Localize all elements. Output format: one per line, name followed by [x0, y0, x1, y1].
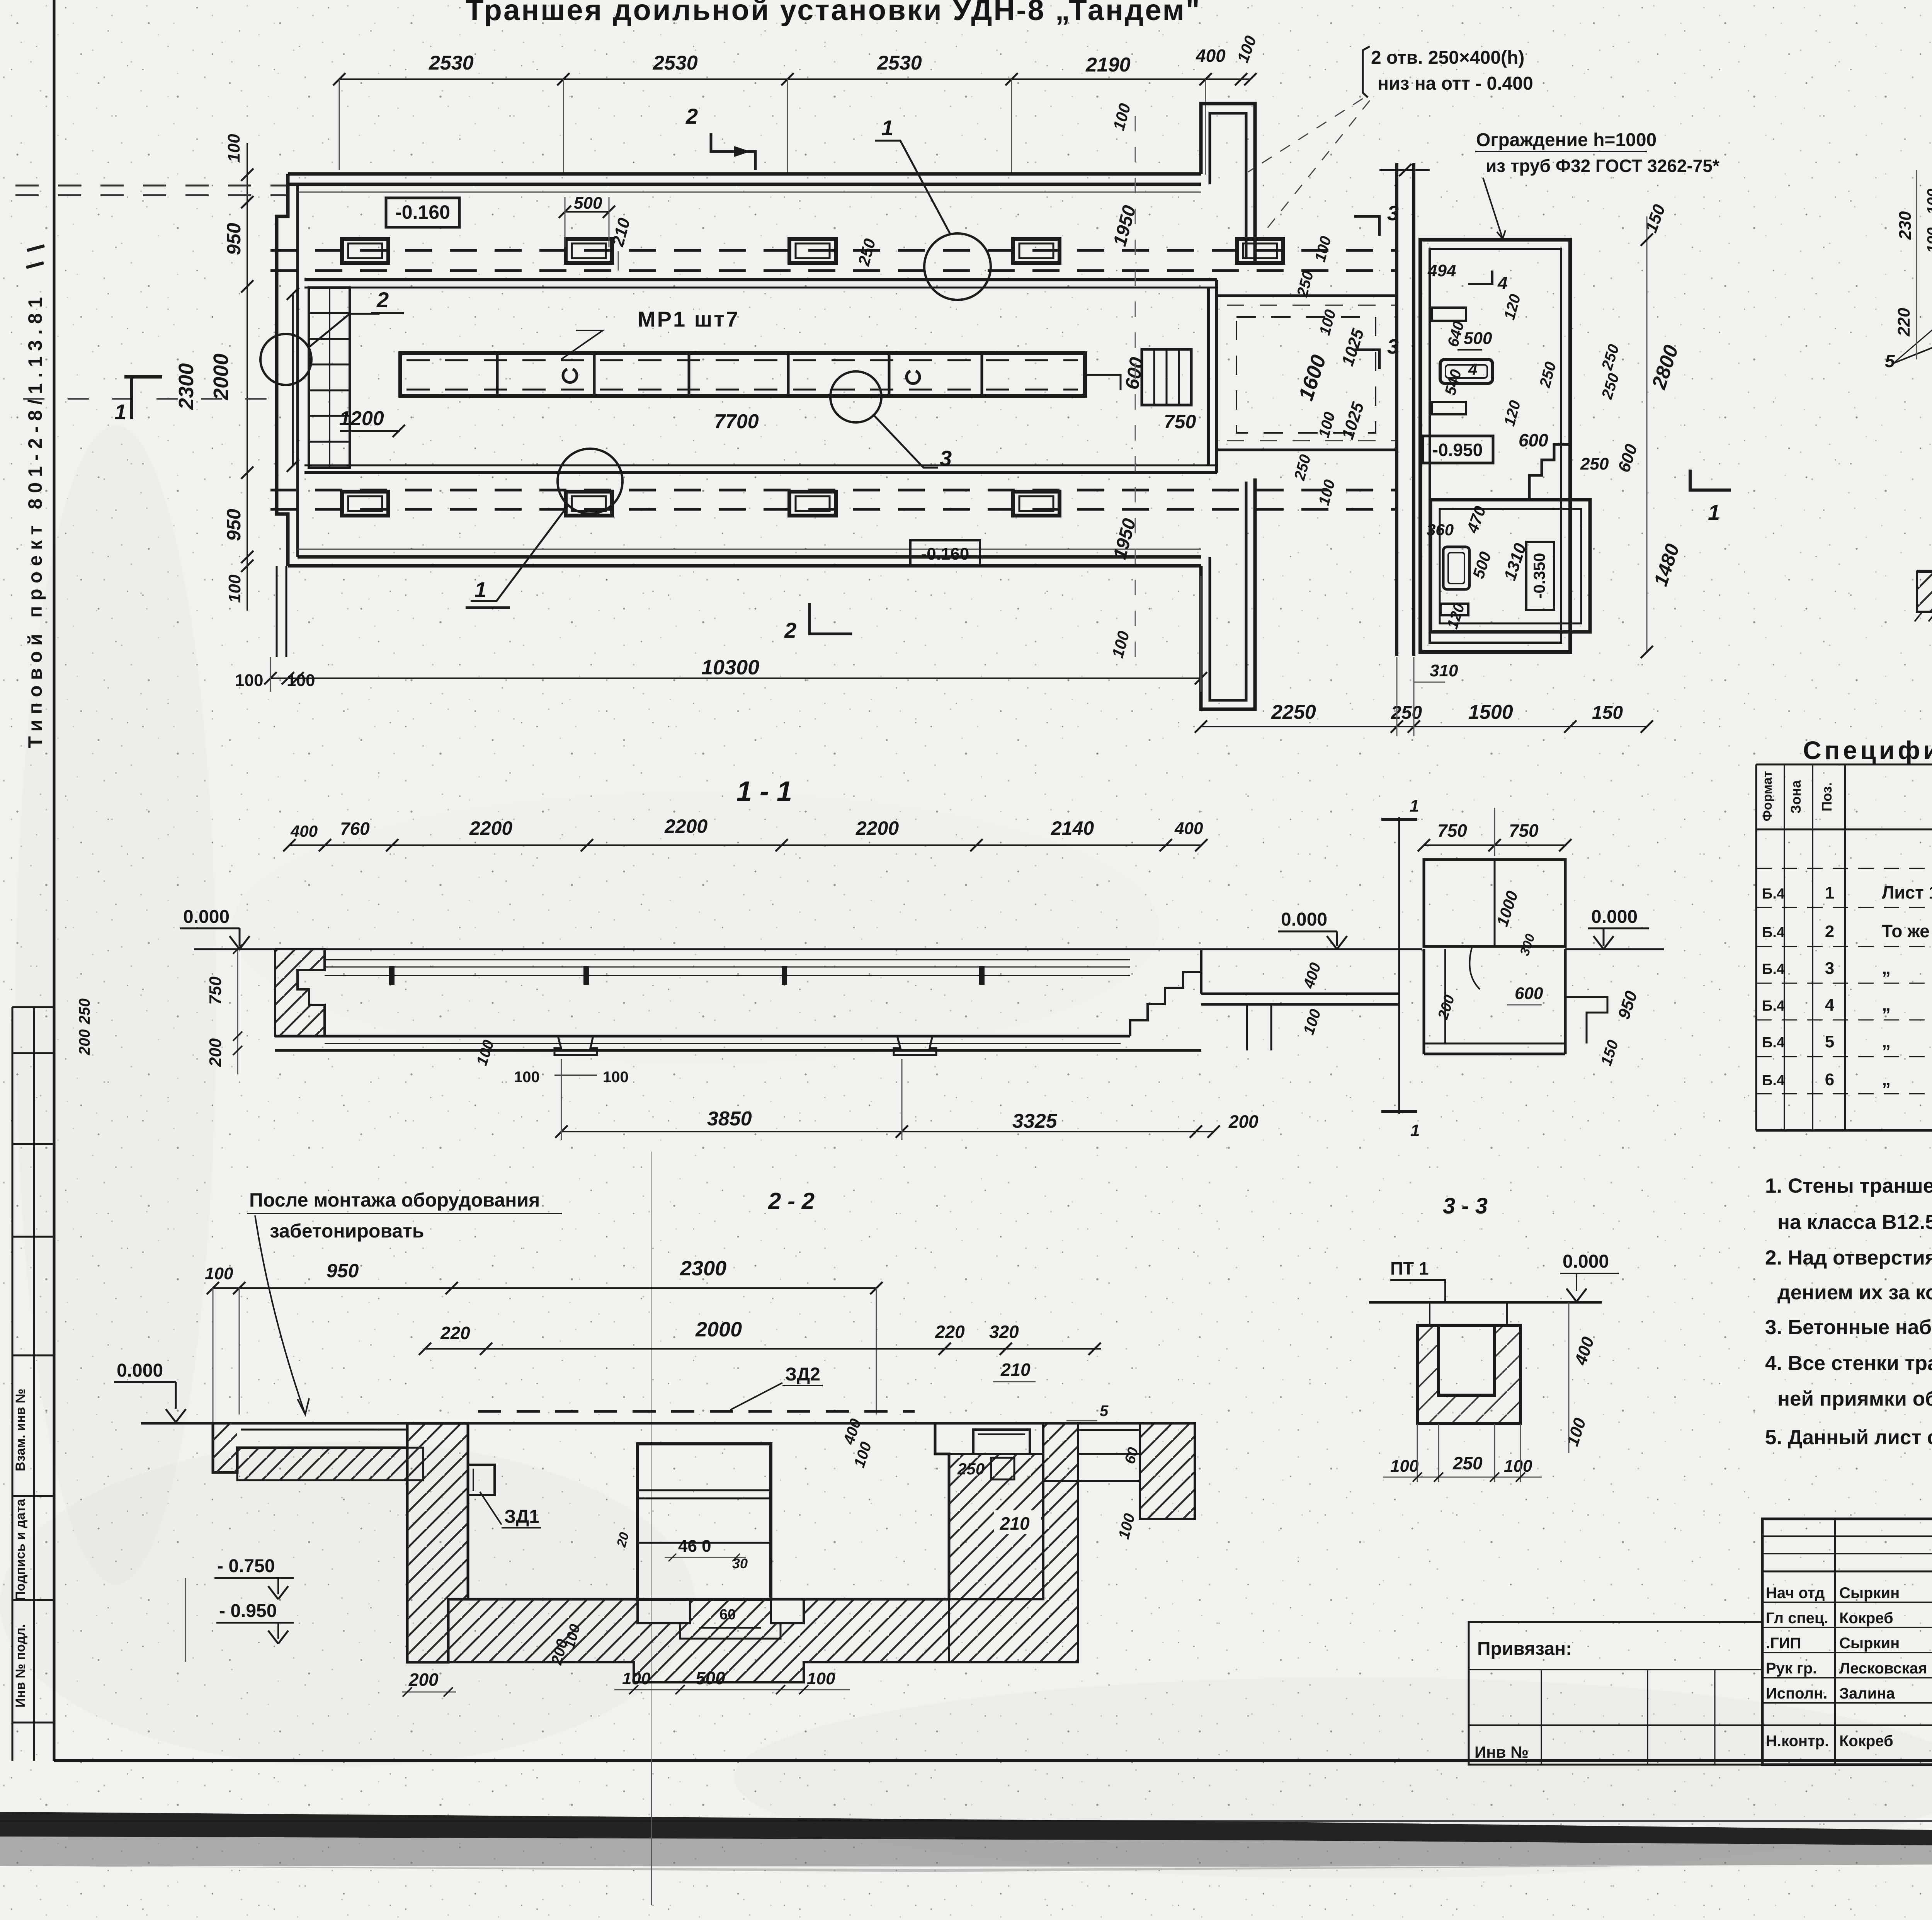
svg-text:2: 2	[1825, 922, 1834, 941]
level box -0.950	[1423, 436, 1493, 463]
room inner bar bottom	[1432, 402, 1466, 414]
svg-text:100: 100	[1504, 1457, 1532, 1476]
channel top tick	[1379, 169, 1430, 171]
trench segment dividers	[496, 353, 499, 396]
sec33 pit hangers	[1429, 1302, 1430, 1325]
plan top dimension line	[339, 78, 1250, 80]
svg-text:5: 5	[1100, 1403, 1109, 1420]
dark scan band at bottom	[0, 1812, 1932, 1851]
plan bottom protrusion opening	[1201, 478, 1255, 709]
sec11 right pit below ground	[1423, 949, 1425, 1054]
callout circle 1 bottom	[558, 449, 622, 514]
svg-text:Сыркин: Сыркин	[1839, 1585, 1900, 1602]
top row pad 1	[342, 239, 388, 263]
level box -0.350 rotated	[1526, 542, 1554, 610]
sec11 bottom dimension line	[561, 1131, 1214, 1132]
plan top wall inner thin line	[298, 192, 1201, 193]
plan strip dims right column	[1135, 116, 1136, 657]
svg-text:1: 1	[1410, 797, 1419, 815]
svg-text:400: 400	[1174, 819, 1203, 838]
sec22 trench top right corner shapes	[949, 1423, 1043, 1454]
svg-text:950: 950	[223, 223, 245, 255]
bracket for 2 otv	[1363, 46, 1370, 97]
svg-text:100: 100	[1924, 227, 1932, 253]
title block frame	[1762, 1519, 1932, 1765]
svg-text:6: 6	[1825, 1070, 1834, 1089]
milking trench long rectangle	[400, 353, 1085, 396]
plan right wall of hall double line	[1207, 288, 1210, 465]
svg-text:2 отв. 250×400(h): 2 отв. 250×400(h)	[1371, 48, 1524, 68]
svg-text:1200: 1200	[339, 407, 384, 430]
svg-text:950: 950	[327, 1260, 359, 1282]
svg-text:0.000: 0.000	[117, 1360, 163, 1381]
svg-text:100: 100	[287, 671, 315, 690]
sec22 right fragment slab lines	[1078, 1429, 1140, 1431]
svg-text:2: 2	[376, 288, 389, 312]
sec11 dim 750 750 fence	[1424, 844, 1565, 846]
svg-text:100: 100	[622, 1669, 651, 1688]
svg-text:2: 2	[685, 104, 698, 128]
svg-text:100: 100	[235, 671, 263, 690]
svg-text:- 0.950: - 0.950	[219, 1601, 277, 1621]
svg-text:Лист 12: Лист 12	[1882, 882, 1932, 902]
svg-text:750: 750	[1437, 820, 1467, 841]
sec11 fence above ground	[1424, 860, 1565, 946]
svg-text:Гл спец.: Гл спец.	[1766, 1610, 1828, 1627]
svg-text:2190: 2190	[1085, 54, 1131, 76]
svg-text:4: 4	[1497, 273, 1508, 293]
svg-text:Ограждение h=1000: Ограждение h=1000	[1476, 130, 1656, 150]
svg-text:4: 4	[1825, 996, 1835, 1014]
section mark 3 upper	[1354, 216, 1379, 236]
svg-text:360: 360	[1427, 521, 1454, 539]
svg-text:3850: 3850	[707, 1108, 752, 1130]
svg-text:Взам. инв №: Взам. инв №	[13, 1389, 28, 1471]
svg-text:Привязан:: Привязан:	[1477, 1639, 1572, 1659]
sec11 section line vertical 1	[1398, 817, 1400, 1114]
svg-text:Траншея доильной установки: Траншея доильной установки УДН-8 „Тандем…	[466, 0, 1201, 27]
sec11 pit step right	[1565, 997, 1607, 1043]
plan bottom dimension line 10300	[270, 677, 1201, 679]
callout circle 1 top	[924, 233, 991, 300]
leader to trench from MP1	[561, 330, 603, 359]
node44 slab section	[1917, 570, 1932, 573]
sec22 floor slab hatched	[448, 1599, 949, 1682]
svg-text:2200: 2200	[664, 815, 707, 837]
svg-text:Сыркин: Сыркин	[1839, 1635, 1900, 1652]
top row pad 2	[566, 239, 612, 263]
svg-text:1 - 1: 1 - 1	[736, 776, 792, 807]
svg-text:200: 200	[408, 1670, 439, 1690]
right room inner bar top	[1432, 308, 1466, 321]
svg-text:3325: 3325	[1012, 1110, 1058, 1132]
svg-text:2250: 2250	[1271, 701, 1316, 723]
svg-text:ЗД2: ЗД2	[785, 1364, 820, 1385]
fence leader arrow	[1483, 178, 1503, 239]
svg-text:на класса В12.5: на класса В12.5	[1777, 1211, 1932, 1234]
svg-text:200: 200	[206, 1038, 225, 1067]
lower room bar	[1440, 604, 1468, 615]
svg-text:250: 250	[1391, 703, 1422, 723]
sec11 floor pedestal right	[894, 1036, 936, 1055]
svg-text:210: 210	[1000, 1513, 1030, 1534]
svg-text:2530: 2530	[877, 52, 922, 74]
svg-text:.ГИП: .ГИП	[1766, 1635, 1801, 1652]
svg-text:1: 1	[474, 577, 486, 602]
svg-text:5: 5	[1885, 351, 1895, 371]
svg-text:600: 600	[1515, 984, 1543, 1003]
svg-text:1: 1	[1708, 500, 1720, 524]
sec11 floor pedestal left	[554, 1036, 597, 1055]
svg-text:2530: 2530	[429, 52, 474, 74]
svg-text:100: 100	[205, 1264, 233, 1283]
sec22 central wall hatched	[407, 1423, 468, 1662]
svg-text:60: 60	[719, 1607, 736, 1623]
svg-text:4: 4	[1468, 360, 1477, 378]
svg-text:3 - 3: 3 - 3	[1443, 1193, 1488, 1219]
sec33 ground line	[1369, 1301, 1602, 1304]
right dim line vertical	[1646, 216, 1648, 653]
left margin dashed extensions	[15, 185, 286, 187]
svg-text:500: 500	[574, 194, 602, 213]
svg-text:760: 760	[340, 819, 370, 839]
svg-text:2: 2	[784, 618, 796, 642]
svg-text:„: „	[1882, 958, 1891, 978]
section mark 3 lower	[1354, 350, 1379, 369]
sec22 right fragment wall hatched	[1140, 1423, 1195, 1519]
svg-text:250: 250	[957, 1460, 985, 1478]
svg-text:4. Все стенки траншеи доиль: 4. Все стенки траншеи доильной установки…	[1765, 1352, 1932, 1375]
svg-text:2 - 2: 2 - 2	[768, 1188, 815, 1214]
sec22 right wall hatched	[949, 1454, 1043, 1599]
svg-text:500: 500	[1464, 329, 1492, 348]
svg-text:Подпись и дата: Подпись и дата	[13, 1498, 28, 1601]
svg-text:200: 200	[76, 1029, 93, 1055]
svg-text:320: 320	[989, 1322, 1019, 1342]
sheet bottom frame line	[54, 1759, 1932, 1762]
svg-text:МР1 шт7: МР1 шт7	[638, 307, 740, 331]
level label -0.160 top box	[386, 198, 459, 227]
svg-text:Кокреб: Кокреб	[1839, 1733, 1893, 1750]
corridor top and bottom lines	[1217, 294, 1397, 297]
left margin stamp boxes	[12, 1007, 54, 1761]
sec22 pedestal foundation	[680, 1599, 781, 1639]
svg-text:10300: 10300	[701, 656, 759, 679]
svg-text:-0.950: -0.950	[1432, 440, 1483, 460]
right room outer walls	[1420, 240, 1570, 652]
svg-text:250: 250	[1452, 1453, 1483, 1473]
top row pad 3	[789, 239, 836, 263]
svg-text:950: 950	[223, 509, 245, 541]
svg-text:Зона: Зона	[1788, 780, 1804, 814]
sec22 grating dashed line	[478, 1410, 915, 1413]
svg-text:ПТ 1: ПТ 1	[1390, 1258, 1429, 1278]
plan inner 2000 dimension line	[292, 294, 294, 466]
plan left vertical dimension line	[247, 143, 248, 611]
svg-text:100: 100	[1924, 189, 1932, 214]
svg-text:5: 5	[1825, 1032, 1834, 1051]
svg-text:150: 150	[1592, 703, 1623, 723]
dim 500 with ticks	[565, 211, 609, 213]
svg-text:600: 600	[1519, 430, 1548, 450]
svg-text:750: 750	[1164, 411, 1196, 432]
svg-text:100: 100	[224, 134, 243, 162]
svg-text:Инв №: Инв №	[1475, 1743, 1529, 1761]
svg-text:0.000: 0.000	[1591, 907, 1638, 927]
svg-text:400: 400	[290, 822, 318, 840]
bottom row pad 1	[342, 492, 388, 516]
sec11 right steps	[1130, 949, 1201, 1036]
room rounded box	[1440, 359, 1493, 383]
svg-text:Б.4: Б.4	[1762, 998, 1785, 1014]
bottom row pad 2	[566, 492, 612, 516]
svg-text:То же: То же	[1882, 921, 1930, 941]
node44 ground hatch marks	[1915, 612, 1922, 621]
spec table frame	[1756, 764, 1932, 1130]
svg-text:220: 220	[440, 1323, 470, 1343]
plan outer wall left with jog	[277, 174, 288, 566]
svg-text:220: 220	[935, 1322, 965, 1342]
svg-text:1. Стены траншеи, каналов и: 1. Стены траншеи, каналов и приятков вып…	[1765, 1174, 1932, 1197]
svg-text:-0.350: -0.350	[1530, 553, 1548, 599]
svg-text:ЗД1: ЗД1	[504, 1506, 539, 1527]
paper bottom thin line	[0, 1820, 1932, 1822]
svg-text:Рук гр.: Рук гр.	[1766, 1660, 1817, 1677]
svg-text:2200: 2200	[855, 817, 899, 839]
sec11 ground line	[194, 948, 1422, 950]
svg-text:100: 100	[603, 1069, 629, 1086]
bottom row pad 4	[1013, 492, 1060, 516]
svg-text:2140: 2140	[1051, 817, 1094, 839]
plan outer wall top double line	[288, 172, 1201, 176]
svg-text:750: 750	[1509, 820, 1539, 841]
svg-text:1: 1	[1410, 1121, 1420, 1140]
svg-text:Исполн.: Исполн.	[1766, 1685, 1827, 1702]
svg-text:„: „	[1882, 994, 1891, 1014]
sec33 pit section	[1417, 1325, 1520, 1424]
svg-text:750: 750	[206, 976, 225, 1005]
section mark 1 right	[1690, 470, 1731, 490]
sec11 fence leader curve	[1469, 946, 1480, 989]
svg-text:250: 250	[1580, 454, 1609, 473]
svg-text:2300: 2300	[175, 363, 198, 410]
svg-text:100: 100	[1390, 1457, 1419, 1476]
svg-text:0.000: 0.000	[1281, 909, 1327, 930]
svg-text:2530: 2530	[653, 52, 698, 74]
svg-text:100: 100	[807, 1669, 835, 1688]
svg-text:Залина: Залина	[1839, 1685, 1895, 1702]
trench strip top wall lines	[304, 278, 1217, 281]
svg-text:Б.4: Б.4	[1762, 1072, 1785, 1089]
svg-text:2300: 2300	[680, 1257, 726, 1280]
svg-text:Нач отд: Нач отд	[1766, 1585, 1825, 1602]
sec11 stall posts	[389, 966, 395, 985]
svg-text:дением их за концы отверсти: дением их за концы отверстия на 250мм	[1777, 1281, 1932, 1304]
svg-text:500: 500	[696, 1668, 725, 1688]
left staircase in plan	[309, 288, 350, 468]
sec11 left hatched wall	[275, 949, 325, 1036]
svg-text:-0.160: -0.160	[921, 545, 969, 563]
svg-text:46 0: 46 0	[678, 1537, 711, 1556]
svg-text:Б.4: Б.4	[1762, 924, 1785, 941]
svg-text:5. Данный лист смотри совме: 5. Данный лист смотри совместно с листом…	[1765, 1426, 1932, 1449]
svg-text:Спецификация элементов на у: Спецификация элементов на узел 1	[1803, 736, 1932, 764]
plan bottom wall inner thin line	[298, 549, 1201, 550]
svg-text:Кокреб: Кокреб	[1839, 1610, 1893, 1627]
svg-text:230: 230	[1896, 211, 1915, 240]
svg-text:Инв № подл.: Инв № подл.	[13, 1624, 28, 1707]
top row pad 5	[1237, 239, 1283, 263]
svg-text:0.000: 0.000	[1563, 1251, 1609, 1272]
room step shape	[1529, 444, 1570, 499]
section mark 4 upper	[1468, 271, 1492, 284]
platform bottom dashed lines	[270, 489, 1395, 492]
svg-text:250: 250	[76, 998, 93, 1025]
trench circle mark 2	[906, 371, 920, 383]
svg-text:210: 210	[1000, 1360, 1031, 1380]
sec11 top dimension line	[289, 844, 1201, 846]
svg-text:низ на отт - 0.400: низ на отт - 0.400	[1378, 73, 1533, 94]
section mark 1 left plan	[124, 375, 162, 379]
svg-text:„: „	[1882, 1069, 1891, 1089]
sec11 floor slab	[275, 1035, 1130, 1038]
trench strip bottom wall lines	[304, 471, 1217, 474]
sec11 right pit walls	[1246, 1004, 1248, 1050]
svg-text:0.000: 0.000	[183, 907, 230, 927]
sheet left border line	[53, 0, 56, 1761]
svg-text:Формат: Формат	[1760, 771, 1775, 821]
svg-text:-0.160: -0.160	[395, 201, 450, 223]
fold mark line below frame	[651, 1761, 652, 1905]
svg-text:ней приямки облицевать кер: ней приямки облицевать керамической плит…	[1777, 1387, 1932, 1410]
plan top protrusion opening	[1201, 104, 1255, 261]
plan wall stub below bottom wall	[276, 566, 278, 657]
svg-text:30: 30	[732, 1556, 748, 1571]
platform top dashed lines	[270, 249, 1395, 252]
sec22 trench outline	[467, 1423, 469, 1465]
svg-text:из труб Ф32 ГОСТ 3262-75*: из труб Ф32 ГОСТ 3262-75*	[1486, 156, 1719, 176]
small marks top left margin	[27, 246, 44, 250]
svg-text:забетонировать: забетонировать	[270, 1220, 424, 1242]
svg-text:3. Бетонные набивные ступени: 3. Бетонные набивные ступени выполнять и…	[1765, 1316, 1932, 1339]
svg-text:Б.4: Б.4	[1762, 1035, 1785, 1051]
svg-text:200: 200	[1228, 1111, 1259, 1132]
svg-text:1500: 1500	[1468, 701, 1513, 723]
sec22 top dim line	[213, 1287, 876, 1289]
sec22 left pit	[213, 1423, 407, 1472]
lower room rounded box	[1443, 547, 1469, 589]
svg-text:2. Над отверстиями шириной 2: 2. Над отверстиями шириной 250 мм пролож…	[1765, 1246, 1932, 1269]
sec11 right passage slab	[1201, 992, 1399, 995]
callout circle 3 mid	[830, 371, 881, 422]
svg-text:7700: 7700	[714, 410, 759, 433]
svg-text:400: 400	[1196, 46, 1226, 66]
sec22 wall step detail	[407, 1448, 423, 1480]
svg-text:Б.4: Б.4	[1762, 886, 1785, 902]
sec22 second dim line	[425, 1348, 1101, 1350]
privyazan box	[1469, 1622, 1762, 1765]
svg-text:Б.4: Б.4	[1762, 961, 1785, 977]
svg-text:100: 100	[514, 1069, 540, 1086]
svg-text:2200: 2200	[469, 817, 512, 839]
plan outer wall bottom double line	[288, 564, 1201, 568]
sec11 dims small under floor	[554, 1075, 597, 1076]
leaders from 2otv to openings	[1248, 99, 1363, 172]
vertical channel double line	[1395, 163, 1398, 656]
svg-text:Н.контр.: Н.контр.	[1766, 1733, 1829, 1750]
svg-text:2000: 2000	[209, 354, 233, 400]
callout circle 2 left	[260, 334, 311, 385]
svg-text:Типовой проект 801-2-8/1.13.: Типовой проект 801-2-8/1.13.81	[24, 292, 46, 748]
scan gray blotches	[0, 1442, 696, 1766]
svg-text:310: 310	[1430, 661, 1458, 680]
plan bottom right dims 2250 250 1500 150	[1201, 726, 1647, 727]
sec11 trench inner horizontals	[325, 959, 1130, 960]
svg-text:220: 220	[1895, 308, 1913, 337]
right staircase in plan	[1142, 349, 1191, 405]
svg-text:100: 100	[225, 574, 244, 603]
sec22 ground line	[141, 1422, 1195, 1425]
svg-text:1: 1	[1825, 883, 1834, 902]
sec22 central pedestal	[638, 1444, 771, 1599]
svg-text:494: 494	[1427, 261, 1456, 280]
svg-text:1: 1	[881, 116, 893, 140]
svg-text:Поз.: Поз.	[1819, 782, 1835, 811]
node1 left dims	[1916, 170, 1917, 359]
svg-text:Лесковская: Лесковская	[1839, 1660, 1927, 1677]
svg-text:2000: 2000	[695, 1318, 742, 1341]
svg-text:3: 3	[940, 446, 952, 470]
corridor inner dashed rectangle	[1236, 317, 1376, 433]
bottom row pad 3	[789, 492, 836, 516]
svg-text:„: „	[1882, 1031, 1891, 1051]
trench circle mark 1	[563, 369, 577, 383]
top row pad 4	[1013, 239, 1060, 263]
svg-text:После монтажа оборудования: После монтажа оборудования	[249, 1189, 540, 1211]
right room lower part outer	[1430, 500, 1590, 632]
svg-text:1: 1	[114, 400, 126, 424]
svg-text:3: 3	[1825, 959, 1834, 978]
sec22 note leader	[255, 1215, 305, 1414]
svg-text:- 0.750: - 0.750	[217, 1556, 275, 1576]
level label -0.160 bottom box	[910, 540, 980, 566]
